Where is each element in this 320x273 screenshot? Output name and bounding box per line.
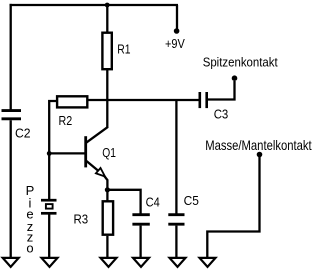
wire C5 branch from node — [175, 100, 177, 214]
wire emitter to C4 — [107, 190, 140, 214]
+9V terminal dot — [174, 28, 180, 34]
svg-text:C5: C5 — [184, 193, 199, 208]
ground (C2) — [3, 258, 19, 267]
Piezzo label (vertical) — [26, 183, 35, 256]
wire base node down to piezo — [48, 153, 50, 199]
wire top rail — [10, 4, 179, 6]
wire Masse terminal to ground — [207, 155, 259, 258]
transistor Q1 — [86, 127, 108, 189]
Spitzenkontakt terminal dot — [232, 75, 238, 81]
svg-text:o: o — [26, 240, 33, 255]
node junction dot at base — [47, 151, 52, 156]
wire left vertical from top corner to C2 — [10, 4, 12, 110]
ground (R3) — [101, 258, 117, 267]
svg-text:Q1: Q1 — [102, 145, 116, 160]
wire C3 to Spitzenkontakt — [208, 81, 235, 100]
svg-text:R2: R2 — [59, 113, 73, 128]
wire C2 bottom to ground — [10, 120, 12, 257]
capacitor C2 — [2, 111, 22, 119]
capacitor C3 — [200, 92, 207, 108]
capacitor C5 — [168, 215, 184, 225]
node junction dot on top rail — [105, 3, 110, 8]
wire collector node horizontal (R2 right to C3) — [88, 99, 199, 101]
svg-text:R3: R3 — [74, 212, 89, 227]
wire C4 bottom to ground — [139, 226, 141, 258]
svg-text:R1: R1 — [117, 41, 130, 56]
svg-text:+9V: +9V — [165, 36, 185, 51]
ground (piezo) — [42, 258, 58, 267]
svg-text:C4: C4 — [146, 194, 160, 209]
wire emitter to R3 — [106, 190, 108, 201]
resistor R3 — [103, 201, 113, 234]
ground (C4) — [133, 258, 149, 267]
wire R2 left down to base node — [49, 101, 56, 153]
wire C5 bottom to ground — [175, 226, 177, 258]
svg-text:Spitzenkontakt: Spitzenkontakt — [203, 55, 278, 70]
piezo element — [41, 200, 57, 213]
wire piezo bottom to ground — [48, 215, 50, 258]
node junction dot at emitter — [105, 187, 110, 192]
ground (C5) — [170, 258, 186, 267]
wire R1 bottom / Q1 collector vertical — [106, 70, 108, 128]
svg-text:Masse/Mantelkontakt: Masse/Mantelkontakt — [205, 137, 312, 153]
capacitor C4 — [132, 215, 149, 225]
svg-text:C2: C2 — [15, 125, 31, 140]
ground (Masse) — [200, 258, 216, 267]
resistor R2 — [57, 96, 87, 107]
wire base horizontal — [49, 152, 85, 154]
svg-text:C3: C3 — [214, 107, 229, 122]
wire +9V drop — [176, 5, 178, 29]
resistor R1 — [102, 33, 111, 69]
wire R3 bottom to ground — [106, 236, 108, 258]
wire R1 stem top — [106, 5, 108, 32]
Masse terminal dot — [257, 152, 263, 158]
